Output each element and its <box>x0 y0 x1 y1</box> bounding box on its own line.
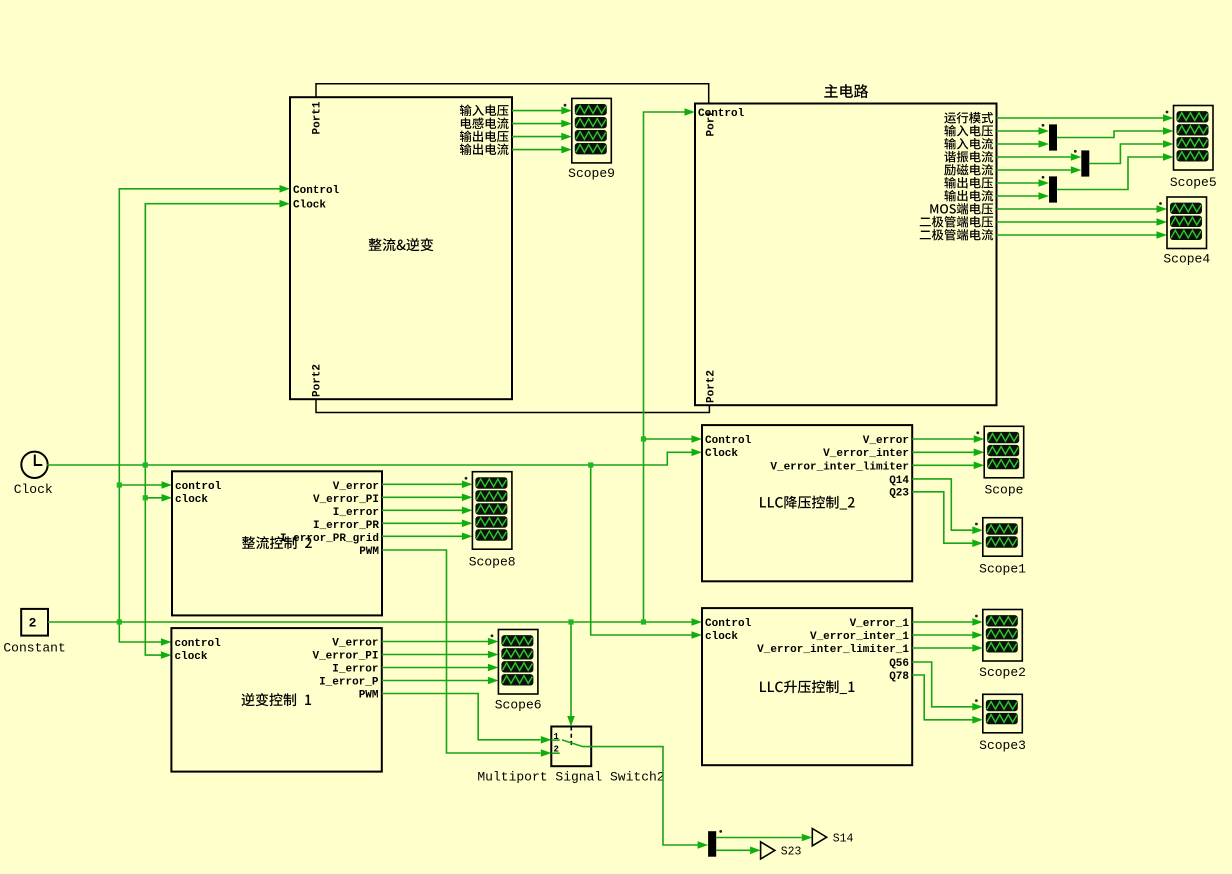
subsystem block 主电路 (main circuit) <box>695 104 997 406</box>
wire 整流控制2 output 4 to Scope8 input 4 <box>382 522 462 524</box>
wire 谐振电流 to Mux1 input 1 <box>997 156 1071 158</box>
svg-text:S14: S14 <box>833 833 854 846</box>
multiplexer Mux2 (输出电压/输出电流) <box>1049 176 1057 202</box>
wire 整流控制2 output 5 to Scope8 input 5 <box>382 535 462 537</box>
wire MOS端电压 to Scope4 input 1 <box>997 208 1157 210</box>
scope Scope1 (2 channels) <box>983 518 1023 557</box>
wire LLC升压控制_1 output 2 to Scope2 input 2 <box>912 634 972 636</box>
svg-text:S23: S23 <box>781 845 802 858</box>
scope Scope2 (3 channels) <box>983 610 1023 662</box>
pin label 输入电压 (output of 整流&逆变) <box>460 104 472 116</box>
subsystem block 整流&逆变 (rectifier & inverter) <box>290 97 512 399</box>
wire Port1 net: 整流&逆变 Port1 (top) to 主电路 Port (top edge) <box>316 84 709 104</box>
wire Control branch vertical to 主电路 Control and LLC降压控制_2 Control <box>644 112 685 622</box>
svg-text:clock: clock <box>175 494 208 506</box>
pin label 输出电流 (output of 整流&逆变) <box>460 143 472 155</box>
wire LLC降压控制_2 Q23 output to Scope1 input 2 <box>912 492 972 543</box>
svg-text:I_error: I_error <box>333 507 379 519</box>
marker dot at Mux first input <box>1042 124 1045 127</box>
svg-text:Port1: Port1 <box>311 101 323 134</box>
svg-text:V_error: V_error <box>332 637 378 649</box>
svg-text:Q14: Q14 <box>889 475 909 487</box>
svg-text:V_error_inter: V_error_inter <box>823 448 909 460</box>
wire 运行模式 to Scope5 input 1 <box>997 117 1164 119</box>
wire LLC降压控制_2 output 2 to Scope input 2 <box>912 451 974 453</box>
pin label 二极管端电流 (output of 主电路) <box>920 231 931 240</box>
junction Control net at (571,622) <box>568 619 573 624</box>
svg-text:Scope5: Scope5 <box>1170 175 1217 190</box>
wire LLC升压控制_1 output 3 to Scope2 input 3 <box>912 647 972 649</box>
wire 整流控制2 output 3 to Scope8 input 3 <box>382 509 462 511</box>
svg-text:Scope8: Scope8 <box>469 554 516 569</box>
pin label 二极管端电压 (output of 主电路) <box>920 218 931 227</box>
svg-text:Control: Control <box>698 108 745 120</box>
wire Clock branch vertical to 整流&逆变 Clock / 整流控制2 clock / 逆变控制1 clock <box>145 204 279 465</box>
svg-text:I_error: I_error <box>332 663 378 675</box>
scope Scope3 (2 channels) <box>983 694 1023 733</box>
svg-text:Q23: Q23 <box>889 488 909 500</box>
svg-text:Scope2: Scope2 <box>979 665 1026 680</box>
marker dot at Mux4 first output <box>719 830 722 833</box>
marker dot at Scope1 first input <box>975 523 978 526</box>
svg-text:Scope: Scope <box>984 482 1023 497</box>
source block Clock <box>21 452 47 478</box>
svg-text:I_error_P: I_error_P <box>319 676 379 688</box>
svg-text:Scope1: Scope1 <box>979 561 1026 576</box>
scope Scope8 (5 channels) <box>472 472 512 550</box>
svg-text:Control: Control <box>705 618 752 630</box>
wire LLC降压控制_2 output 1 to Scope input 1 <box>912 438 974 440</box>
wire 励磁电流 to Mux1 input 2 <box>997 169 1071 171</box>
pin label 输入电压 (output of 主电路) <box>944 125 956 137</box>
marker dot at Scope8 first input <box>465 477 468 480</box>
marker dot at Mux1 first input <box>1074 150 1077 153</box>
marker dot at Scope5 first input <box>1166 111 1169 114</box>
junction Control net at (119,485) <box>117 482 122 487</box>
svg-text:Scope3: Scope3 <box>979 738 1026 753</box>
junction Control net at (644,622) <box>641 619 646 624</box>
wire Multiport Signal Switch2 output to Mux4 input <box>591 747 697 845</box>
wire 二极管端电流 to Scope4 input 3 <box>997 234 1157 236</box>
subsystem block LLC升压控制_1 (LLC boost control) <box>702 608 912 765</box>
scope Scope (3 channels) <box>984 426 1024 478</box>
wire 输入电流 to Mux input 2 <box>997 143 1039 145</box>
pin label 谐振电流 (output of 主电路) <box>944 151 955 162</box>
scope Scope9 (4 channels) <box>572 98 612 162</box>
wire 输出电流 to Mux2 input 2 <box>997 195 1039 197</box>
svg-text:Q78: Q78 <box>889 671 909 683</box>
svg-text:Clock: Clock <box>705 448 738 460</box>
svg-text:V_error_inter_limiter: V_error_inter_limiter <box>770 462 909 474</box>
junction Clock net at (591,465) <box>588 462 593 467</box>
svg-text:Scope6: Scope6 <box>495 698 542 713</box>
svg-text:Q56: Q56 <box>889 658 909 670</box>
svg-text:Scope4: Scope4 <box>1163 252 1210 267</box>
pin label 运行模式 (output of 主电路) <box>944 113 956 124</box>
svg-text:Constant: Constant <box>3 640 65 655</box>
svg-text:Port2: Port2 <box>706 370 718 403</box>
wire 二极管端电压 to Scope4 input 2 <box>997 221 1157 223</box>
wire Constant output trunk to LLC升压控制_1 Control input <box>48 621 692 623</box>
multiplexer Mux1 (谐振电流/励磁电流) <box>1081 150 1089 176</box>
wire Control branch to Multiport Signal Switch2 select input <box>570 622 572 717</box>
junction Clock net at (145,498) <box>143 495 148 500</box>
wire Clock branch to LLC升压控制_1 clock input <box>591 465 692 635</box>
svg-text:Port2: Port2 <box>311 364 323 397</box>
wire Mux1 output to Scope5 input 3 <box>1089 144 1163 164</box>
wire LLC升压控制_1 Q78 output to Scope3 input 2 <box>912 675 972 720</box>
wire 输入电压 to Mux input 1 <box>997 130 1039 132</box>
switch block Multiport Signal Switch2 <box>551 727 591 767</box>
wire 逆变控制1 PWM output to Multiport Signal Switch2 input 1 <box>382 694 541 740</box>
wire 逆变控制1 output 4 to Scope6 input 4 <box>382 680 488 682</box>
wire 整流&逆变 output 2 to Scope9 input 2 <box>512 123 562 125</box>
svg-text:V_error_1: V_error_1 <box>850 618 910 630</box>
wire Control branch vertical to 整流&逆变 Control / 整流控制2 control / 逆变控制1 control <box>119 189 279 622</box>
svg-text:clock: clock <box>705 631 738 643</box>
marker dot at Scope first input <box>976 431 979 434</box>
wire 逆变控制1 output 3 to Scope6 input 3 <box>382 667 488 669</box>
multiplexer Mux (输入电压/输入电流) <box>1049 124 1057 150</box>
svg-text:Clock: Clock <box>14 482 53 497</box>
scope Scope4 (3 channels) <box>1167 197 1207 249</box>
wire 输出电压 to Mux2 input 1 <box>997 182 1039 184</box>
subsystem block 逆变控制 1 (inverter control) <box>171 628 381 772</box>
wire Mux4 output 1 to signal label S14 <box>716 837 802 839</box>
wire Mux4 output 2 to signal label S23 <box>716 849 750 851</box>
wire Clock output trunk to LLC降压控制_2 Clock input <box>47 452 691 465</box>
multiplexer Mux4 (S14/S23 demux bar) <box>708 831 716 857</box>
pin label 励磁电流 (output of 主电路) <box>944 164 955 175</box>
svg-text:2: 2 <box>29 615 37 630</box>
marker dot at Mux2 first input <box>1042 176 1045 179</box>
wire Mux2 output to Scope5 input 4 <box>1057 157 1163 190</box>
wire LLC降压控制_2 Q14 output to Scope1 input 1 <box>912 479 972 530</box>
wire 整流&逆变 output 4 to Scope9 input 4 <box>512 149 562 151</box>
wire 逆变控制1 output 1 to Scope6 input 1 <box>382 641 488 643</box>
wire LLC降压控制_2 output 3 to Scope input 3 <box>912 464 974 466</box>
pin label 输出电压 (output of 主电路) <box>944 177 956 189</box>
svg-text:V_error_PI: V_error_PI <box>312 650 378 662</box>
svg-text:control: control <box>175 481 222 493</box>
pin label 输出电流 (output of 主电路) <box>944 190 956 202</box>
wire 整流控制2 output 2 to Scope8 input 2 <box>382 496 462 498</box>
svg-text:I_error_PR_grid: I_error_PR_grid <box>280 533 379 545</box>
marker dot at Scope9 first input <box>564 104 567 107</box>
wire LLC升压控制_1 Q56 output to Scope3 input 1 <box>912 662 972 707</box>
svg-text:Clock: Clock <box>293 200 326 212</box>
svg-text:V_error_inter_1: V_error_inter_1 <box>810 631 909 643</box>
wire Mux output to Scope5 input 2 <box>1057 131 1163 138</box>
wire 整流&逆变 output 1 to Scope9 input 1 <box>512 110 562 112</box>
svg-text:Control: Control <box>293 185 340 197</box>
svg-text:clock: clock <box>175 651 208 663</box>
scope Scope5 (4 channels) <box>1174 106 1214 171</box>
subsystem block LLC降压控制_2 (LLC buck control) <box>702 425 912 581</box>
wire 逆变控制1 output 2 to Scope6 input 2 <box>382 654 488 656</box>
svg-text:V_error: V_error <box>333 481 379 493</box>
wire 整流控制2 PWM output to Multiport Signal Switch2 input 2 <box>382 550 541 753</box>
signal label S23 (goto tag triangle) <box>761 842 775 859</box>
marker dot at Scope6 first input <box>491 634 494 637</box>
junction Control net at (119,622) <box>117 619 122 624</box>
pin label 输入电流 (output of 主电路) <box>944 138 956 150</box>
wire LLC升压控制_1 output 1 to Scope2 input 1 <box>912 621 972 623</box>
source block Constant (value 2) <box>21 609 48 636</box>
pin label 电感电流 (output of 整流&逆变) <box>461 118 472 129</box>
marker dot at Scope3 first input <box>975 699 978 702</box>
svg-text:Control: Control <box>705 435 752 447</box>
scope Scope6 (4 channels) <box>498 630 538 695</box>
svg-text:V_error: V_error <box>863 435 909 447</box>
junction Clock net at (145,465) <box>143 462 148 467</box>
marker dot at Scope2 first input <box>975 615 978 618</box>
subsystem block 整流控制 2 (rectifier control) <box>172 471 382 615</box>
svg-text:control: control <box>175 638 222 650</box>
signal label S14 (goto tag triangle) <box>812 829 826 846</box>
marker dot at Scope4 first input <box>1159 202 1162 205</box>
svg-text:Scope9: Scope9 <box>568 166 615 181</box>
svg-text:PWM: PWM <box>359 546 379 558</box>
wire Port2 net: 整流&逆变 Port2 (bottom) to 主电路 Port2 (bottom edge) <box>316 399 709 412</box>
pin label MOS端电压 (output of 主电路) <box>930 204 938 213</box>
junction Control net at (644,439) <box>641 436 646 441</box>
svg-text:V_error_inter_limiter_1: V_error_inter_limiter_1 <box>757 644 909 656</box>
svg-text:I_error_PR: I_error_PR <box>313 520 379 532</box>
wire 整流&逆变 output 3 to Scope9 input 3 <box>512 136 562 138</box>
svg-text:V_error_PI: V_error_PI <box>313 494 379 506</box>
svg-text:PWM: PWM <box>359 689 379 701</box>
wire 整流控制2 output 1 to Scope8 input 1 <box>382 483 462 485</box>
svg-text:Multiport Signal Switch2: Multiport Signal Switch2 <box>477 770 664 785</box>
pin label 输出电压 (output of 整流&逆变) <box>460 130 472 142</box>
